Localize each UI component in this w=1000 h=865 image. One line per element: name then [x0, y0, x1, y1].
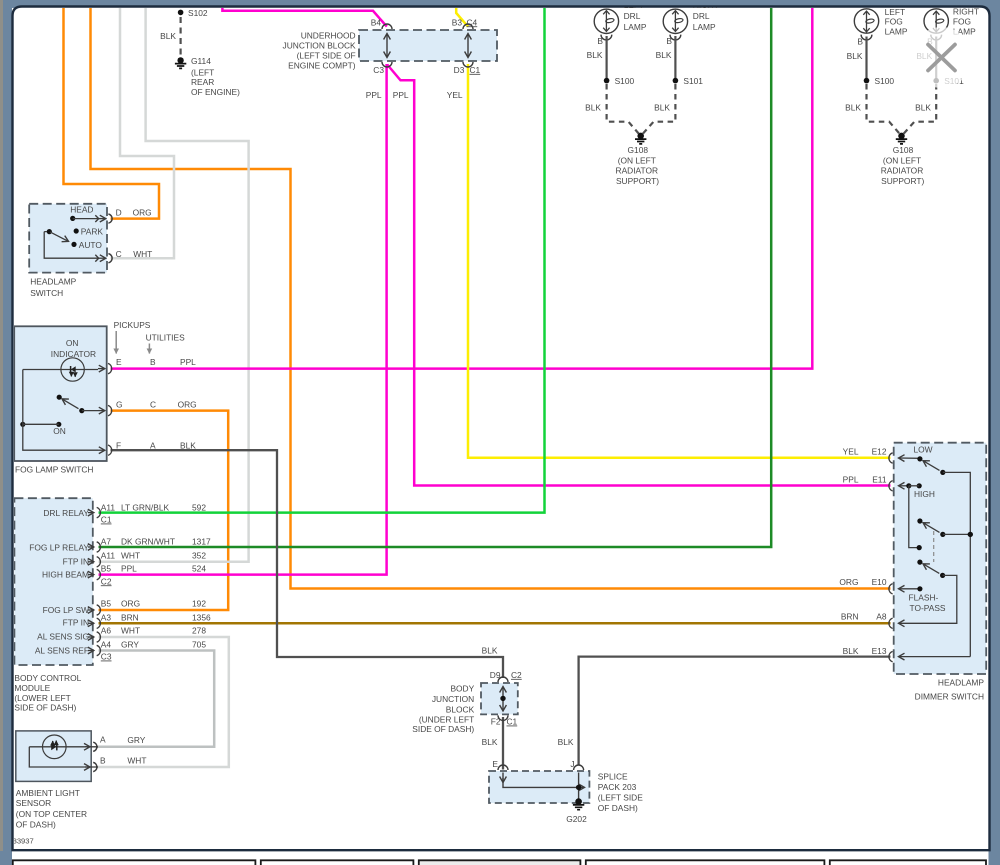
- headlamp switch AUTO contact: [71, 242, 76, 247]
- connector E12 with YEL label: [899, 457, 920, 459]
- svg-text:LEFT: LEFT: [885, 7, 905, 17]
- svg-text:F2: F2: [491, 717, 501, 727]
- connector J: [574, 765, 584, 770]
- svg-text:WHT: WHT: [133, 249, 152, 259]
- svg-text:SWITCH: SWITCH: [30, 288, 63, 298]
- ground G114: [175, 56, 240, 97]
- svg-text:C1: C1: [470, 65, 481, 75]
- svg-text:C3: C3: [373, 65, 384, 75]
- svg-text:YEL: YEL: [447, 90, 463, 100]
- svg-text:JUNCTION BLOCK: JUNCTION BLOCK: [283, 40, 356, 50]
- svg-text:JUNCTION: JUNCTION: [432, 694, 474, 704]
- ambient light sensor photodiode: [29, 735, 98, 767]
- svg-text:192: 192: [192, 599, 206, 609]
- svg-text:RADIATOR: RADIATOR: [616, 166, 659, 176]
- dimmer linkage dashed: [933, 531, 935, 562]
- svg-text:SUPPORT): SUPPORT): [881, 176, 924, 186]
- connector D9 of C2: [498, 677, 508, 682]
- svg-text:DK GRN/WHT: DK GRN/WHT: [121, 537, 175, 547]
- svg-text:A11: A11: [101, 551, 116, 561]
- svg-text:C2: C2: [511, 670, 522, 680]
- svg-text:33937: 33937: [13, 837, 34, 846]
- body control module box: [14, 498, 92, 665]
- svg-text:FOG: FOG: [885, 17, 903, 27]
- svg-text:PPL: PPL: [393, 90, 409, 100]
- svg-text:SIDE OF DASH): SIDE OF DASH): [14, 703, 76, 713]
- svg-text:BLK: BLK: [160, 31, 176, 41]
- connector C with WHT label: [98, 257, 106, 259]
- svg-text:A: A: [150, 440, 156, 450]
- connector D3 of C1: [463, 62, 473, 67]
- fog lamp switch ON indicator LED: [23, 358, 98, 381]
- svg-text:SIDE OF DASH): SIDE OF DASH): [412, 724, 474, 734]
- wire PPL top edge to underhood B4: [222, 8, 386, 27]
- svg-text:S100: S100: [615, 76, 635, 86]
- svg-text:BLK: BLK: [180, 440, 196, 450]
- svg-text:GRY: GRY: [121, 640, 139, 650]
- svg-text:LT GRN/BLK: LT GRN/BLK: [121, 503, 170, 513]
- connector F with A BLK labels: [98, 449, 105, 451]
- close button overlay: [911, 27, 972, 88]
- svg-text:(LEFT: (LEFT: [191, 67, 214, 77]
- svg-text:(LOWER LEFT: (LOWER LEFT: [14, 693, 70, 703]
- svg-text:B3: B3: [452, 17, 463, 27]
- svg-text:B: B: [666, 36, 672, 46]
- connector B with WHT label: [85, 766, 90, 768]
- headlamp switch box: [29, 204, 107, 273]
- svg-text:C1: C1: [507, 717, 518, 727]
- wire GRY BCM A4 AL SENS REF to ambient sensor A: [96, 651, 214, 747]
- svg-text:S100: S100: [875, 76, 895, 86]
- headlamp switch PARK contact: [74, 228, 79, 233]
- svg-text:C4: C4: [467, 17, 478, 27]
- lamp RIGHT DRL LAMP: [663, 0, 719, 40]
- svg-text:WHT: WHT: [121, 625, 140, 635]
- svg-text:E: E: [492, 759, 498, 769]
- svg-text:G108: G108: [628, 145, 649, 155]
- svg-text:G114: G114: [191, 56, 211, 66]
- svg-text:BLK: BLK: [585, 103, 601, 113]
- svg-text:592: 592: [192, 503, 206, 513]
- fog lamp switch ON contact row: [20, 422, 25, 427]
- svg-text:ENGINE COMPT): ENGINE COMPT): [288, 61, 356, 71]
- svg-text:LOW: LOW: [914, 445, 933, 455]
- svg-text:BLK: BLK: [587, 50, 603, 60]
- svg-text:UTILITIES: UTILITIES: [146, 333, 186, 343]
- svg-text:BLK: BLK: [656, 50, 672, 60]
- svg-text:G108: G108: [893, 145, 914, 155]
- svg-text:BLK: BLK: [847, 51, 863, 61]
- svg-text:E: E: [116, 357, 122, 367]
- svg-text:C3: C3: [101, 652, 112, 662]
- svg-text:FOG LAMP SWITCH: FOG LAMP SWITCH: [15, 464, 93, 474]
- node S100 (fog): [864, 78, 870, 84]
- svg-text:WHT: WHT: [121, 551, 140, 561]
- headlamp dimmer switch box: [894, 443, 987, 674]
- connector C3: [382, 62, 392, 67]
- wire BLK dashed S100 to G108: [607, 84, 639, 134]
- svg-text:HEADLAMP: HEADLAMP: [30, 277, 76, 287]
- headlamp switch common wire to C: [44, 232, 98, 259]
- svg-text:FTP IN: FTP IN: [63, 617, 89, 627]
- svg-text:OF DASH): OF DASH): [16, 819, 56, 829]
- connector B3 of C4: [463, 24, 473, 29]
- wire ORG orange1: top edge to headlamp switch D: [64, 8, 160, 219]
- svg-text:YEL: YEL: [843, 447, 859, 457]
- ambient light sensor box: [16, 731, 91, 782]
- svg-text:1317: 1317: [192, 537, 211, 547]
- svg-text:DRL: DRL: [693, 11, 710, 21]
- svg-text:HEADLAMP: HEADLAMP: [938, 678, 984, 688]
- svg-text:PACK 203: PACK 203: [598, 782, 637, 792]
- splice internal wire J to ground with junction: [578, 773, 580, 800]
- svg-text:HIGH: HIGH: [914, 489, 935, 499]
- svg-text:SENSOR: SENSOR: [16, 798, 51, 808]
- svg-text:(ON LEFT: (ON LEFT: [618, 155, 656, 165]
- wire BLK dashed fog S100 to G108: [867, 84, 900, 134]
- svg-text:PPL: PPL: [366, 90, 382, 100]
- fog lamp switch lever: [57, 395, 62, 400]
- dimmer flash-to-pass lever to A8: [917, 560, 922, 565]
- svg-text:BLK: BLK: [845, 103, 861, 113]
- svg-text:FOG LP SW: FOG LP SW: [43, 605, 89, 615]
- wire YEL underhood D3 to dimmer E12: [468, 64, 891, 458]
- svg-text:UNDERHOOD: UNDERHOOD: [301, 31, 356, 41]
- connector E: [498, 765, 508, 770]
- svg-text:(LEFT SIDE OF: (LEFT SIDE OF: [297, 51, 356, 61]
- svg-text:B: B: [857, 36, 863, 46]
- connector E with B PPL labels: [98, 368, 105, 370]
- wire WHT grey2: top edge to BCM A11 WHT FTP IN: [99, 8, 249, 562]
- dimmer middle lever with junction on E13 bus: [917, 518, 922, 523]
- svg-text:FTP IN: FTP IN: [63, 557, 89, 567]
- svg-text:A4: A4: [101, 640, 112, 650]
- ground G108 (DRL): [616, 133, 660, 187]
- svg-text:WHT: WHT: [127, 755, 146, 765]
- svg-text:LAMP: LAMP: [693, 22, 716, 32]
- svg-text:A: A: [100, 735, 106, 745]
- svg-text:F: F: [116, 440, 121, 450]
- svg-text:LAMP: LAMP: [624, 22, 647, 32]
- svg-text:BRN: BRN: [121, 613, 139, 623]
- svg-text:ORG: ORG: [839, 577, 858, 587]
- ground G202: [566, 798, 587, 824]
- svg-text:AL SENS SIG: AL SENS SIG: [37, 632, 89, 642]
- svg-text:DRL RELAY: DRL RELAY: [43, 508, 89, 518]
- svg-text:GRY: GRY: [127, 735, 145, 745]
- svg-text:FLASH-: FLASH-: [909, 593, 939, 603]
- connector A8 with BRN label: [889, 618, 893, 628]
- wire BLK dashed S102 to G114: [180, 17, 182, 56]
- svg-text:PPL: PPL: [180, 357, 196, 367]
- connector E11 with PPL label: [899, 485, 909, 487]
- connector E13 with BLK label: [899, 656, 971, 658]
- connector A with GRY label: [85, 746, 90, 748]
- svg-text:BLK: BLK: [843, 646, 859, 656]
- svg-text:A7: A7: [101, 537, 112, 547]
- svg-text:D9: D9: [490, 670, 501, 680]
- wire BRN BCM A3 FTP IN to dimmer A8: [99, 622, 891, 625]
- svg-text:C1: C1: [101, 515, 112, 525]
- frame slate top strip: [0, 0, 1000, 8]
- svg-text:HIGH BEAM: HIGH BEAM: [42, 569, 89, 579]
- fog lamp switch common wire: [23, 370, 98, 451]
- svg-text:B5: B5: [101, 564, 112, 574]
- svg-text:ON: ON: [66, 338, 79, 348]
- svg-text:(ON TOP CENTER: (ON TOP CENTER: [16, 809, 87, 819]
- ground G108 (fog): [881, 133, 925, 187]
- svg-text:ORG: ORG: [178, 400, 197, 410]
- wire BLK dashed fog S101 to G108: [904, 84, 936, 134]
- connector E10 with ORG label: [899, 588, 920, 590]
- frame grey outer strip: [0, 0, 3, 851]
- connector D with ORG label: [98, 218, 106, 220]
- headlamp switch HEAD contact to D: [70, 216, 75, 221]
- svg-text:ON: ON: [53, 426, 66, 436]
- wire PPL underhood C3 to dimmer E11: [387, 65, 890, 486]
- svg-text:BLK: BLK: [558, 737, 574, 747]
- svg-text:AMBIENT LIGHT: AMBIENT LIGHT: [16, 788, 80, 798]
- svg-text:S101: S101: [683, 76, 703, 86]
- svg-text:278: 278: [192, 625, 206, 635]
- svg-text:FOG: FOG: [953, 17, 971, 27]
- svg-text:B5: B5: [101, 599, 112, 609]
- lamp RIGHT FOG LAMP: [924, 7, 979, 40]
- splice internal wire E to bus: [503, 773, 585, 788]
- svg-text:705: 705: [192, 640, 206, 650]
- svg-text:(ON LEFT: (ON LEFT: [883, 155, 921, 165]
- wire PPL underhood C3 to BCM B5 HIGH BEAM: [99, 64, 387, 575]
- svg-text:E13: E13: [872, 646, 887, 656]
- frame slate right strip: [989, 0, 1000, 865]
- svg-text:A8: A8: [876, 612, 887, 622]
- svg-text:DRL: DRL: [624, 11, 641, 21]
- svg-text:E12: E12: [872, 447, 887, 457]
- svg-text:SPLICE: SPLICE: [598, 772, 628, 782]
- internal bus B3-D3 double arrow: [467, 34, 469, 58]
- svg-text:S102: S102: [188, 8, 208, 18]
- svg-text:BLK: BLK: [482, 646, 498, 656]
- svg-text:C: C: [150, 400, 156, 410]
- underhood junction block box: [359, 30, 497, 61]
- wire DK GRN top edge to BCM A7 FOG LP RELAY: [99, 8, 772, 547]
- svg-text:FOG LP RELAY: FOG LP RELAY: [29, 543, 89, 553]
- svg-text:E10: E10: [872, 577, 887, 587]
- svg-text:AL SENS REF: AL SENS REF: [35, 646, 89, 656]
- svg-text:LAMP: LAMP: [885, 27, 908, 37]
- svg-text:OF ENGINE): OF ENGINE): [191, 87, 240, 97]
- svg-text:RADIATOR: RADIATOR: [881, 166, 924, 176]
- svg-text:BLK: BLK: [915, 103, 931, 113]
- body junction block box: [481, 683, 518, 714]
- svg-text:BLOCK: BLOCK: [446, 705, 475, 715]
- node S102: [178, 10, 184, 16]
- svg-text:PARK: PARK: [81, 227, 104, 237]
- svg-text:C: C: [116, 249, 122, 259]
- svg-text:AUTO: AUTO: [79, 240, 103, 250]
- svg-text:RIGHT: RIGHT: [953, 7, 979, 17]
- dimmer LOW contact and lever to E13 bus: [917, 456, 922, 461]
- svg-text:B: B: [100, 755, 106, 765]
- wire BLK fog switch F to body junction block D9: [111, 450, 504, 678]
- wire BLK body junction block F2 to splice pack E: [502, 717, 504, 770]
- wire BLK splice pack J to dimmer E13: [579, 657, 891, 766]
- svg-text:DIMMER SWITCH: DIMMER SWITCH: [915, 692, 984, 702]
- svg-text:B: B: [150, 357, 156, 367]
- svg-text:G: G: [116, 400, 123, 410]
- svg-text:REAR: REAR: [191, 77, 214, 87]
- headlamp switch wiper lever: [47, 229, 52, 234]
- svg-text:524: 524: [192, 564, 206, 574]
- svg-text:D: D: [116, 207, 122, 217]
- svg-text:PICKUPS: PICKUPS: [114, 320, 151, 330]
- node S101: [673, 78, 679, 84]
- svg-text:C2: C2: [101, 576, 112, 586]
- node S100: [604, 78, 610, 84]
- lamp LEFT DRL LAMP: [594, 0, 647, 40]
- wire BLK dashed S101 to G108: [643, 84, 675, 134]
- svg-text:TO-PASS: TO-PASS: [910, 603, 946, 613]
- svg-text:D3: D3: [454, 65, 465, 75]
- svg-text:BODY CONTROL: BODY CONTROL: [14, 673, 81, 683]
- internal bus B4-C3 double arrow: [386, 34, 388, 58]
- svg-text:B: B: [597, 36, 603, 46]
- svg-text:MODULE: MODULE: [14, 683, 50, 693]
- svg-text:PPL: PPL: [843, 475, 859, 485]
- frame slate left strip: [0, 0, 12, 865]
- wire WHT BCM A6 AL SENS SIG to ambient sensor B: [96, 637, 229, 767]
- svg-text:G202: G202: [566, 814, 587, 824]
- svg-text:(LEFT SIDE: (LEFT SIDE: [598, 792, 643, 802]
- connector B4: [382, 24, 392, 29]
- svg-text:BRN: BRN: [841, 612, 859, 622]
- dimmer HIGH contact wiring: [906, 483, 911, 488]
- svg-text:OF DASH): OF DASH): [598, 803, 638, 813]
- svg-text:ORG: ORG: [133, 207, 152, 217]
- svg-text:HEAD: HEAD: [70, 205, 93, 215]
- connector F2 of C1: [498, 715, 508, 720]
- svg-text:A11: A11: [101, 503, 116, 513]
- wire YEL top edge to underhood B3: [456, 8, 468, 27]
- svg-text:BLK: BLK: [482, 737, 498, 747]
- svg-text:J: J: [570, 759, 574, 769]
- svg-text:BLK: BLK: [654, 103, 670, 113]
- node S101 (fog): [933, 78, 939, 84]
- internal bus D9-F2 double arrow with junction: [502, 687, 504, 712]
- splice pack box: [489, 771, 589, 803]
- svg-text:B4: B4: [371, 17, 382, 27]
- svg-text:A6: A6: [101, 625, 112, 635]
- lamp LEFT FOG LAMP: [854, 7, 908, 40]
- wire ORG orange2: top edge to dimmer E10: [91, 8, 891, 589]
- svg-text:A3: A3: [101, 613, 112, 623]
- wire ORG fog switch G to BCM B5 FOG LP SW: [99, 411, 229, 610]
- svg-text:PPL: PPL: [121, 564, 137, 574]
- svg-text:352: 352: [192, 551, 206, 561]
- wire LT GRN top edge to BCM A11 DRL RELAY: [99, 8, 545, 513]
- connector G with C ORG labels: [98, 410, 105, 412]
- bottom tab row: [13, 860, 986, 865]
- svg-text:BODY: BODY: [450, 684, 474, 694]
- svg-text:ORG: ORG: [121, 599, 140, 609]
- wire PPL fog switch E to top edge: [111, 8, 813, 369]
- svg-text:E11: E11: [872, 475, 887, 485]
- svg-text:SUPPORT): SUPPORT): [616, 176, 659, 186]
- wire WHT grey1: top edge to headlamp switch C: [111, 8, 175, 258]
- fog lamp switch box: [14, 326, 107, 461]
- svg-text:1356: 1356: [192, 613, 211, 623]
